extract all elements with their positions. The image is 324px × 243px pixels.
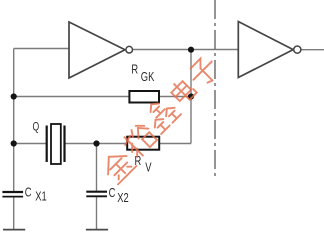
terminal bar under CX2 xyxy=(86,229,108,231)
junction: U1 output / bus xyxy=(188,47,194,53)
junction: node between crystal and RV xyxy=(93,140,99,146)
char dian xyxy=(168,77,196,105)
capacitor CX1 xyxy=(2,192,23,197)
wire: left vertical rail xyxy=(13,49,15,193)
resistor RV xyxy=(127,137,159,150)
junction: rail / RGK xyxy=(11,93,17,99)
svg-text:R: R xyxy=(131,64,138,78)
wire: input to inverter U1 xyxy=(14,48,69,50)
watermark (red diagonal CJK strokes) xyxy=(100,54,222,184)
wire: rail to crystal xyxy=(14,143,47,145)
svg-text:Q: Q xyxy=(33,121,40,133)
wire: R_GK to bus xyxy=(159,96,191,98)
svg-text:C: C xyxy=(25,186,32,200)
wire: C_X2 to bottom terminal xyxy=(96,197,98,229)
junction: rail / crystal row xyxy=(11,140,17,146)
svg-text:C: C xyxy=(109,187,116,201)
wire: U2 output xyxy=(301,49,324,51)
svg-text:GK: GK xyxy=(141,71,155,85)
svg-text:V: V xyxy=(145,161,152,175)
char xin xyxy=(141,94,181,134)
op-amp U2 (inverter) xyxy=(238,22,301,78)
capacitor CX2 xyxy=(86,192,107,197)
wire: C_X1 to bottom terminal xyxy=(13,197,15,229)
label CX2 xyxy=(109,187,129,206)
wire: rail to R_GK xyxy=(14,96,130,98)
svg-text:X2: X2 xyxy=(117,192,128,206)
label RGK xyxy=(131,64,154,85)
wire: node B down to C_X2 xyxy=(96,144,98,192)
junction: RGK / bus xyxy=(188,93,194,99)
label CX1 xyxy=(25,186,47,203)
center line (dash-dot boundary) xyxy=(214,0,216,177)
wire: crystal to R_V xyxy=(65,143,128,145)
label RV xyxy=(135,155,152,175)
char jin xyxy=(100,148,137,185)
wire: U1 output to U2 input xyxy=(133,49,239,51)
crystal Q xyxy=(47,124,65,164)
wire: vertical feedback bus xyxy=(190,50,192,144)
char yu xyxy=(121,121,159,159)
resistor RGK xyxy=(129,91,159,103)
op-amp U1 (inverter) xyxy=(69,22,133,78)
svg-text:X1: X1 xyxy=(35,190,46,204)
terminal bar under CX1 xyxy=(3,229,25,231)
char zi xyxy=(186,54,221,89)
wire: bus corner to R_V xyxy=(159,143,191,145)
